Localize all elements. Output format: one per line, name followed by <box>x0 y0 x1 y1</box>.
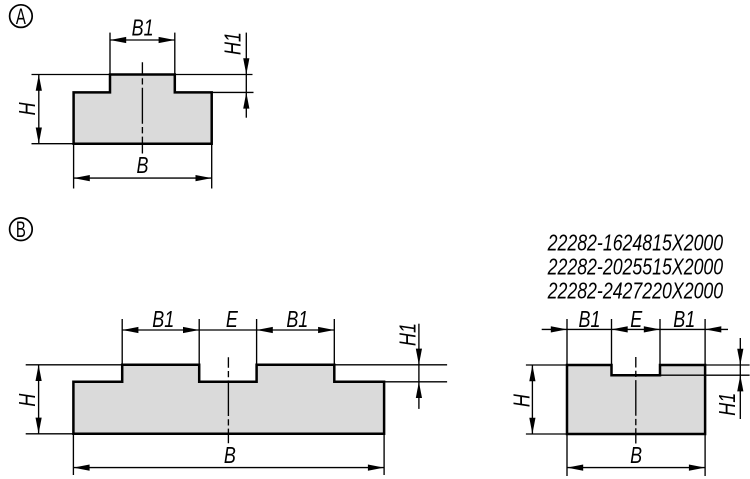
svg-text:22282-1624815X2000: 22282-1624815X2000 <box>547 230 724 256</box>
view A: dimension H1 <box>220 32 249 118</box>
view B-left: dimension line B1 / E / B1 <box>122 307 334 333</box>
svg-text:B1: B1 <box>152 307 174 333</box>
svg-text:H1: H1 <box>715 393 741 416</box>
view B-right: centerline <box>635 357 637 444</box>
view B-left: extension line B left <box>72 434 74 475</box>
view B-right: extension line top level right (H1 reference) <box>705 364 750 366</box>
svg-text:22282-2427220X2000: 22282-2427220X2000 <box>547 278 724 304</box>
svg-text:B: B <box>137 153 149 179</box>
svg-text:H: H <box>15 102 41 115</box>
view B-right: notch-bottom level extension line (H1 reference) <box>660 374 750 376</box>
view B-right: notched block profile body <box>567 365 705 434</box>
view A: extension line bottom-left (H reference) <box>32 143 74 145</box>
view B-right: dimension B <box>567 443 705 471</box>
view A: T-slot key profile body <box>74 75 212 144</box>
view A: dimension B <box>74 153 212 181</box>
view B-left: extension line tongue-top level left (H reference) <box>26 364 123 366</box>
svg-text:22282-2025515X2000: 22282-2025515X2000 <box>547 254 724 280</box>
view A: extension line B1 left <box>109 33 111 75</box>
view B-left: extension line bottom-left (H reference) <box>26 433 74 435</box>
view B-left: centerline <box>227 357 229 443</box>
view A: dimension H <box>15 75 42 144</box>
view A: extension line shoulder level right (H1 reference) <box>212 91 254 93</box>
view B-left: extension line B right <box>383 434 385 475</box>
view B-left: extension line tongue-top level right (H1 reference) <box>334 364 447 366</box>
svg-text:E: E <box>630 307 642 333</box>
svg-text:H1: H1 <box>395 323 421 346</box>
view B-right: extension line notch right <box>659 319 661 365</box>
view A: extension line B right <box>211 144 213 189</box>
view B-right: dimension line B1 / E / B1 <box>542 307 728 333</box>
view B-right: extension line notch left <box>611 319 613 365</box>
svg-text:H1: H1 <box>220 32 246 55</box>
view B-right: dimension H <box>509 365 535 434</box>
svg-text:H: H <box>15 394 41 407</box>
section marker B <box>10 217 33 242</box>
view B-left: dimension H1 <box>395 323 422 409</box>
view B-left: extension line tongue1 right / E left <box>198 319 200 365</box>
view B-left: extension line tongue2 right <box>333 319 335 365</box>
view B-left: dimension B <box>73 443 384 471</box>
svg-text:B: B <box>224 443 236 469</box>
svg-text:A: A <box>16 4 26 29</box>
view A: dimension B1 <box>110 16 175 44</box>
view A: extension line B left <box>73 144 75 189</box>
view B-right: extension line bottom-left (H reference) <box>526 433 567 435</box>
view B-right: extension line B1 body left <box>566 319 568 365</box>
section marker A <box>10 4 33 29</box>
view B-right: extension line top level left (H reference) <box>526 364 567 366</box>
svg-text:B1: B1 <box>579 307 601 333</box>
view B-left: double-tongue profile body <box>73 365 384 434</box>
svg-text:B: B <box>630 443 642 469</box>
svg-text:B1: B1 <box>132 16 154 42</box>
svg-text:B1: B1 <box>286 307 308 333</box>
view B-left: extension line B1 tongue1 left <box>121 319 123 365</box>
view B-left: extension line E right / tongue2 left <box>256 319 258 365</box>
view B-right: extension line B1 body right <box>704 319 706 365</box>
svg-text:E: E <box>226 307 238 333</box>
view A: extension line B1 right <box>174 33 176 75</box>
view B-right: extension line B left <box>566 434 568 476</box>
view B-left: extension line shoulder level right (H1 reference) <box>384 381 447 383</box>
svg-text:B: B <box>16 217 26 242</box>
svg-text:H: H <box>509 394 535 407</box>
view B-left: dimension H <box>15 365 42 434</box>
view A: extension line tongue-top level (H and H1 reference) <box>32 74 253 76</box>
view A: centerline <box>141 62 143 153</box>
view B-right: dimension H1 <box>715 338 743 419</box>
view B-right: extension line B right <box>704 434 706 476</box>
svg-text:B1: B1 <box>673 307 695 333</box>
